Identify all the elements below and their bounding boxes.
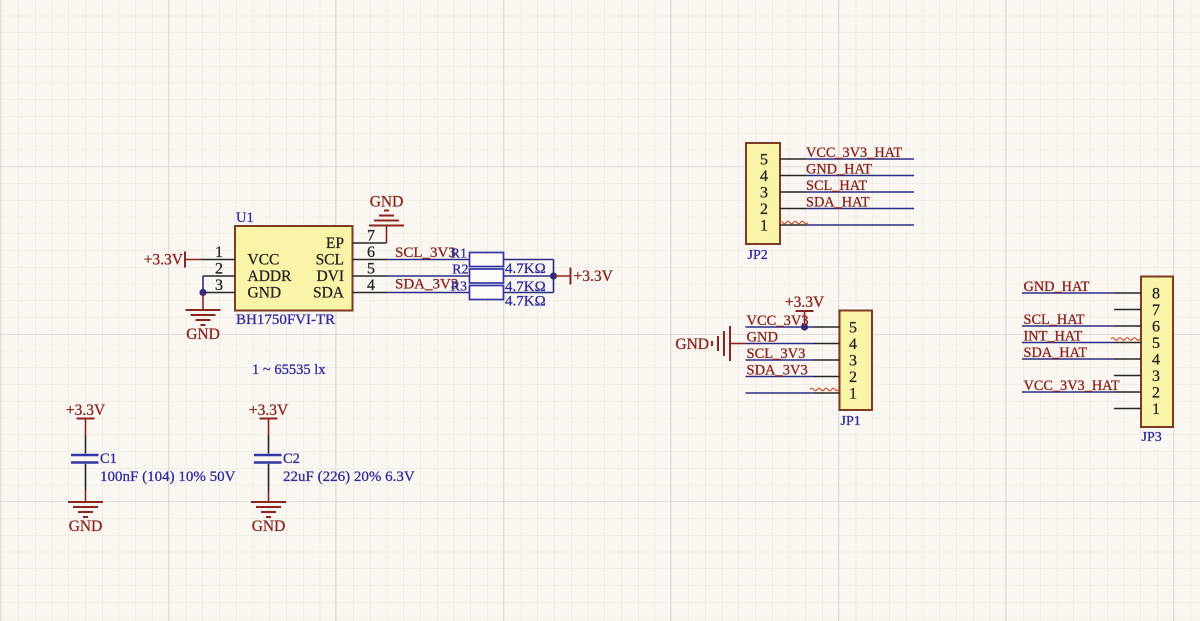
svg-text:VCC_3V3_HAT: VCC_3V3_HAT [806, 145, 902, 161]
svg-text:C2: C2 [283, 451, 300, 467]
resistor R1 [451, 247, 546, 278]
JP3 pin 4 [1114, 352, 1160, 369]
wire GND_HAT net [806, 175, 914, 177]
junction at U1 pin 3 [199, 289, 206, 296]
svg-text:JP2: JP2 [748, 248, 768, 263]
net label VCC_3V3_HAT at JP3 [1024, 378, 1120, 394]
JP2 pin 2 [760, 201, 806, 218]
svg-text:ADDR: ADDR [248, 268, 293, 285]
svg-text:VCC: VCC [248, 252, 280, 269]
wire JP1 pin 3 [746, 359, 814, 361]
JP3 pin 2 [1114, 385, 1160, 402]
wire JP2 pin 1 stub [806, 224, 914, 226]
IC U1 BH1750FVI-TR body [235, 226, 353, 311]
svg-text:1: 1 [849, 386, 857, 403]
U1 pin 3 [203, 277, 235, 294]
svg-text:5: 5 [760, 152, 768, 169]
designator JP3 [1142, 430, 1162, 445]
svg-text:GND: GND [675, 336, 709, 353]
JP3 pin 3 [1114, 368, 1160, 385]
svg-text:4: 4 [1152, 352, 1160, 369]
svg-text:4: 4 [849, 336, 857, 353]
svg-text:SCL_HAT: SCL_HAT [1024, 312, 1085, 328]
JP2 pin 5 [760, 152, 806, 169]
svg-text:R2: R2 [452, 263, 468, 278]
JP1 pin 3 [814, 353, 858, 370]
U1 pin 4 [353, 277, 388, 294]
ground GND at U1 pin 7 (EP) [369, 194, 404, 244]
svg-text:7: 7 [1152, 302, 1160, 319]
svg-text:3: 3 [849, 353, 857, 370]
JP3 pin 5 [1114, 335, 1160, 352]
svg-text:SDA_HAT: SDA_HAT [1024, 345, 1088, 361]
wire JP1 pin 4 [746, 343, 814, 345]
svg-text:2: 2 [760, 201, 768, 218]
connector JP2 body [746, 143, 780, 244]
svg-text:SDA_3V3: SDA_3V3 [395, 277, 458, 293]
JP1 pin 1 [814, 386, 858, 403]
svg-text:GND_HAT: GND_HAT [1024, 279, 1090, 295]
U1 pin 6 [353, 244, 388, 261]
wire INT_HAT net at JP3 [1022, 342, 1114, 344]
svg-text:GND: GND [252, 518, 286, 535]
svg-text:4.7KΩ: 4.7KΩ [505, 294, 546, 310]
svg-text:+3.3V: +3.3V [144, 252, 184, 269]
svg-text:GND: GND [186, 326, 220, 343]
svg-text:5: 5 [367, 261, 375, 278]
JP2 pin 3 [760, 185, 806, 202]
svg-text:2: 2 [1152, 385, 1160, 402]
svg-text:2: 2 [849, 369, 857, 386]
junction at resistor bus [550, 272, 557, 279]
net label GND_HAT [806, 162, 872, 178]
ground GND at JP1 pin 4 [675, 326, 745, 361]
svg-text:4: 4 [760, 168, 768, 185]
wire GND_HAT net at JP3 [1022, 292, 1114, 294]
net label SDA_HAT [806, 195, 870, 211]
designator JP2 [748, 248, 768, 263]
svg-text:7: 7 [367, 228, 375, 245]
power port +3.3V at resistor bus [554, 268, 614, 286]
value label BH1750FVI-TR [236, 312, 335, 328]
svg-text:INT_HAT: INT_HAT [1024, 329, 1083, 345]
comment 1 ~ 65535 lx [252, 362, 326, 378]
JP3 pin 7 [1114, 302, 1160, 319]
no-ERC squiggle JP2 pin 1 [779, 221, 808, 224]
net label VCC_3V3_HAT [806, 145, 902, 161]
pin name SCL [316, 252, 344, 269]
JP1 pin 2 [814, 369, 858, 386]
svg-text:1: 1 [215, 244, 223, 261]
svg-text:GND: GND [747, 330, 778, 346]
wire VCC_3V3_HAT net at JP3 [1022, 391, 1114, 393]
svg-text:JP3: JP3 [1142, 430, 1162, 445]
wire R3 to bus [504, 292, 554, 294]
pin name SDA [313, 285, 345, 302]
svg-text:R1: R1 [451, 247, 467, 262]
power port +3.3V at C2 [249, 402, 289, 435]
svg-text:R3: R3 [451, 280, 467, 295]
svg-text:VCC_3V3: VCC_3V3 [747, 313, 809, 329]
capacitor C1 [71, 435, 117, 490]
wire SCL_3V3 net [387, 259, 470, 261]
svg-text:SDA: SDA [313, 285, 345, 302]
wire JP1 pin 5 [746, 326, 814, 328]
wire JP1 pin 2 [746, 376, 814, 378]
JP3 pin 8 [1114, 286, 1160, 303]
JP2 pin 4 [760, 168, 806, 185]
U1 pin 2 [203, 261, 235, 278]
net label SCL_HAT at JP3 [1024, 312, 1085, 328]
svg-text:C1: C1 [100, 451, 117, 467]
svg-text:SDA_3V3: SDA_3V3 [747, 363, 808, 379]
svg-text:+3.3V: +3.3V [785, 294, 825, 311]
net label INT_HAT at JP3 [1024, 329, 1083, 345]
svg-text:SCL_3V3: SCL_3V3 [747, 346, 806, 362]
svg-text:SDA_HAT: SDA_HAT [806, 195, 870, 211]
pin name EP [326, 235, 344, 252]
connector JP3 body [1141, 277, 1173, 428]
U1 pin 7 [353, 228, 387, 245]
svg-text:8: 8 [1152, 286, 1160, 303]
U1 pin 5 [353, 261, 388, 278]
JP3 pin 1 [1114, 401, 1160, 418]
wire R1 to bus [504, 259, 554, 261]
svg-text:4.7KΩ: 4.7KΩ [505, 261, 546, 277]
svg-text:22uF (226) 20% 6.3V: 22uF (226) 20% 6.3V [283, 469, 415, 485]
value label C2 22uF [283, 469, 415, 485]
svg-text:2: 2 [215, 261, 223, 278]
svg-text:+3.3V: +3.3V [249, 402, 289, 419]
svg-text:JP1: JP1 [841, 414, 861, 429]
wire SCL_HAT net [806, 191, 914, 193]
net label SCL_3V3 [395, 245, 456, 261]
pin name DVI [316, 268, 344, 285]
svg-text:100nF (104) 10% 50V: 100nF (104) 10% 50V [100, 469, 236, 485]
power port +3.3V at JP1 [785, 294, 825, 327]
no-ERC squiggle JP1 pin 1 [810, 388, 839, 391]
ground GND at C1 [68, 490, 103, 535]
JP3 pin 6 [1114, 319, 1160, 336]
value label C1 100nF [100, 469, 236, 485]
svg-text:+3.3V: +3.3V [66, 402, 106, 419]
net label SDA_HAT at JP3 [1024, 345, 1088, 361]
wire SDA_HAT net at JP3 [1022, 358, 1114, 360]
junction at JP1 pin 5 [801, 323, 808, 330]
JP1 pin 5 [814, 320, 858, 337]
svg-text:4: 4 [367, 277, 375, 294]
svg-text:1 ~ 65535 lx: 1 ~ 65535 lx [252, 362, 326, 378]
designator JP1 [841, 414, 861, 429]
svg-text:+3.3V: +3.3V [574, 268, 614, 285]
wire DVI to R2 [387, 275, 470, 277]
svg-text:GND: GND [69, 518, 103, 535]
pin name ADDR [248, 268, 293, 285]
svg-text:5: 5 [849, 320, 857, 337]
designator U1 [236, 210, 254, 226]
svg-text:6: 6 [1152, 319, 1160, 336]
net label SCL_HAT [806, 178, 867, 194]
svg-text:GND_HAT: GND_HAT [806, 162, 872, 178]
svg-text:GND: GND [248, 285, 282, 302]
svg-text:1: 1 [1152, 401, 1160, 418]
no-ERC squiggle JP3 pin 5 [1111, 338, 1140, 341]
U1 pin 1 [202, 244, 236, 261]
svg-text:SCL_3V3: SCL_3V3 [395, 245, 456, 261]
wire R2 to bus [504, 275, 554, 277]
net label VCC_3V3 [747, 313, 809, 329]
pin name GND [248, 285, 282, 302]
svg-text:VCC_3V3_HAT: VCC_3V3_HAT [1024, 378, 1120, 394]
svg-text:3: 3 [760, 185, 768, 202]
connector JP1 body [840, 311, 873, 411]
svg-text:GND: GND [370, 194, 404, 211]
svg-text:5: 5 [1152, 335, 1160, 352]
svg-text:SCL: SCL [316, 252, 344, 269]
svg-text:6: 6 [367, 244, 375, 261]
wire JP1 pin 1 [746, 392, 814, 394]
power port +3.3V at U1 pin 1 [144, 252, 202, 269]
net label SCL_3V3 [747, 346, 806, 362]
resistor R2 [452, 263, 546, 296]
wire SDA_HAT net [806, 208, 914, 210]
svg-text:3: 3 [215, 277, 223, 294]
net label SDA_3V3 [747, 363, 808, 379]
wire SDA_3V3 net [387, 292, 470, 294]
resistor R3 [451, 280, 546, 310]
JP2 pin 1 [760, 218, 806, 235]
svg-text:EP: EP [326, 235, 344, 252]
wire U1 pin2 to pin3 junction [202, 276, 204, 293]
ground GND at U1 pin 3 [186, 293, 221, 344]
svg-text:1: 1 [760, 218, 768, 235]
power port +3.3V at C1 [66, 402, 106, 435]
net label SDA_3V3 [395, 277, 458, 293]
ground GND at C2 [251, 490, 286, 535]
wire bus vertical [553, 260, 555, 293]
net label GND_HAT at JP3 [1024, 279, 1090, 295]
JP1 pin 4 [814, 336, 858, 353]
capacitor C2 [254, 435, 300, 490]
net label GND [747, 330, 778, 346]
svg-text:SCL_HAT: SCL_HAT [806, 178, 867, 194]
svg-text:U1: U1 [236, 210, 254, 226]
wire SCL_HAT net at JP3 [1022, 325, 1114, 327]
wire VCC_3V3_HAT net [806, 158, 914, 160]
svg-text:BH1750FVI-TR: BH1750FVI-TR [236, 312, 335, 328]
svg-text:DVI: DVI [316, 268, 344, 285]
svg-text:3: 3 [1152, 368, 1160, 385]
pin name VCC [248, 252, 280, 269]
